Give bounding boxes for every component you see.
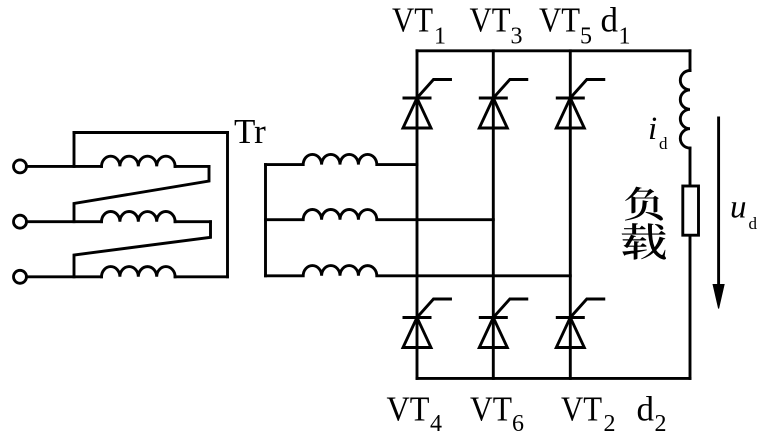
- svg-text:VT: VT: [470, 1, 511, 40]
- svg-text:d: d: [601, 1, 619, 40]
- primary winding coil P2: [102, 212, 176, 222]
- delta left vertical wire: [73, 133, 76, 167]
- svg-text:1: 1: [619, 24, 631, 50]
- svg-text:d: d: [749, 214, 758, 233]
- bottom bus wire d2: [417, 377, 690, 380]
- svg-text:4: 4: [430, 411, 442, 437]
- transformer Tr primary terminal 1: [14, 160, 27, 173]
- thyristor VT2: [556, 299, 604, 348]
- thyristor VT5: [556, 80, 604, 129]
- svg-text:3: 3: [511, 24, 523, 50]
- svg-text:Tr: Tr: [234, 112, 266, 151]
- wire inductor to load resistor: [689, 148, 692, 186]
- wire load resistor to bottom bus: [689, 235, 692, 378]
- delta link coil P1 to P2 (drop, diagonal, drop): [74, 166, 209, 221]
- svg-text:VT: VT: [392, 1, 433, 40]
- transformer Tr primary terminal 3: [14, 270, 27, 283]
- thyristor VT1: [403, 80, 451, 129]
- delta top rail wire: [74, 131, 228, 134]
- primary winding coil P3: [102, 267, 176, 277]
- svg-text:VT: VT: [470, 390, 512, 429]
- transformer Tr primary terminal 2: [14, 215, 27, 228]
- bridge leg 1 wire: [416, 51, 419, 379]
- svg-text:VT: VT: [387, 390, 430, 429]
- smoothing inductor Ld: [680, 71, 690, 149]
- thyristor VT3: [479, 80, 527, 129]
- wire coil P3 right to delta rail: [175, 275, 227, 278]
- svg-text:6: 6: [512, 411, 524, 437]
- wire terminal1 to primary coil P1: [26, 165, 101, 168]
- label load 负: [625, 187, 663, 221]
- top bus wire d1: [417, 49, 690, 52]
- svg-text:2: 2: [604, 411, 616, 437]
- svg-text:VT: VT: [561, 390, 602, 429]
- primary winding coil P1: [102, 156, 176, 166]
- wire coil P2 right: [175, 220, 210, 223]
- svg-text:VT: VT: [539, 1, 580, 40]
- secondary winding coil S3: [266, 266, 571, 276]
- delta right vertical wire: [226, 133, 229, 277]
- wire terminal3 to primary coil P3: [26, 275, 101, 278]
- svg-text:5: 5: [580, 24, 592, 50]
- wire coil P1 right: [175, 165, 209, 168]
- wire right top (bus corner to inductor): [689, 51, 692, 71]
- svg-text:2: 2: [655, 411, 667, 437]
- wire terminal2 to primary coil P2: [26, 220, 101, 223]
- svg-text:i: i: [648, 111, 657, 147]
- load resistor rectangle: [683, 186, 699, 235]
- label load 载: [622, 223, 666, 259]
- bridge leg 3 wire: [569, 51, 572, 379]
- delta link coil P2 to P3 (drop, diagonal, drop): [74, 222, 211, 277]
- svg-text:u: u: [730, 190, 747, 226]
- secondary star neutral vertical wire: [264, 165, 267, 276]
- svg-text:d: d: [659, 134, 668, 153]
- secondary winding coil S2: [266, 209, 494, 219]
- thyristor VT4: [403, 299, 451, 348]
- bridge leg 2 wire: [492, 51, 495, 379]
- secondary winding coil S1: [266, 154, 418, 164]
- arrow ud: [713, 118, 724, 309]
- svg-text:d: d: [637, 390, 655, 429]
- thyristor VT6: [479, 299, 527, 348]
- svg-text:1: 1: [434, 24, 446, 50]
